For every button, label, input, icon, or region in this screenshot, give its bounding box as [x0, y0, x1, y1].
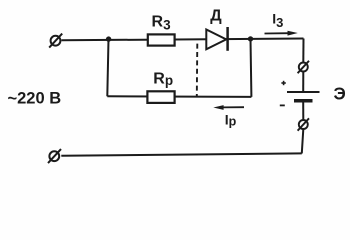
node junction left	[106, 36, 111, 41]
resistor Rp	[147, 91, 174, 103]
diode D	[206, 27, 227, 51]
terminal X2 bottom-left	[48, 149, 61, 163]
resistor R3	[148, 34, 175, 45]
wire plate to terminal	[302, 102, 304, 120]
wire bottom branch	[107, 95, 251, 98]
current arrow Ip	[213, 105, 244, 110]
svg-text:I3: I3	[272, 11, 283, 30]
current arrow I3	[265, 31, 298, 36]
svg-text:Rр: Rр	[153, 70, 173, 88]
dashed wire	[196, 44, 199, 97]
terminal X1 top-left	[49, 34, 62, 48]
wire right drop upper	[302, 39, 304, 63]
svg-text:~220 В: ~220 В	[8, 90, 62, 108]
label minus	[280, 104, 285, 106]
electrolytic cell E plates	[287, 92, 320, 101]
wire to plate	[302, 72, 304, 93]
terminal cell plus	[298, 61, 309, 73]
wire right branch vertical	[250, 39, 253, 97]
svg-text:Д: Д	[210, 7, 222, 24]
node junction right	[248, 36, 253, 41]
wire right drop lower	[302, 129, 304, 153]
wire top	[62, 39, 304, 41]
svg-text:R3: R3	[152, 14, 172, 33]
svg-text:Iр: Iр	[225, 111, 237, 128]
wire bottom	[61, 153, 301, 155]
label plus	[281, 81, 285, 85]
svg-text:Э: Э	[334, 84, 346, 104]
wire left branch vertical	[107, 39, 108, 96]
terminal cell minus	[298, 118, 309, 130]
